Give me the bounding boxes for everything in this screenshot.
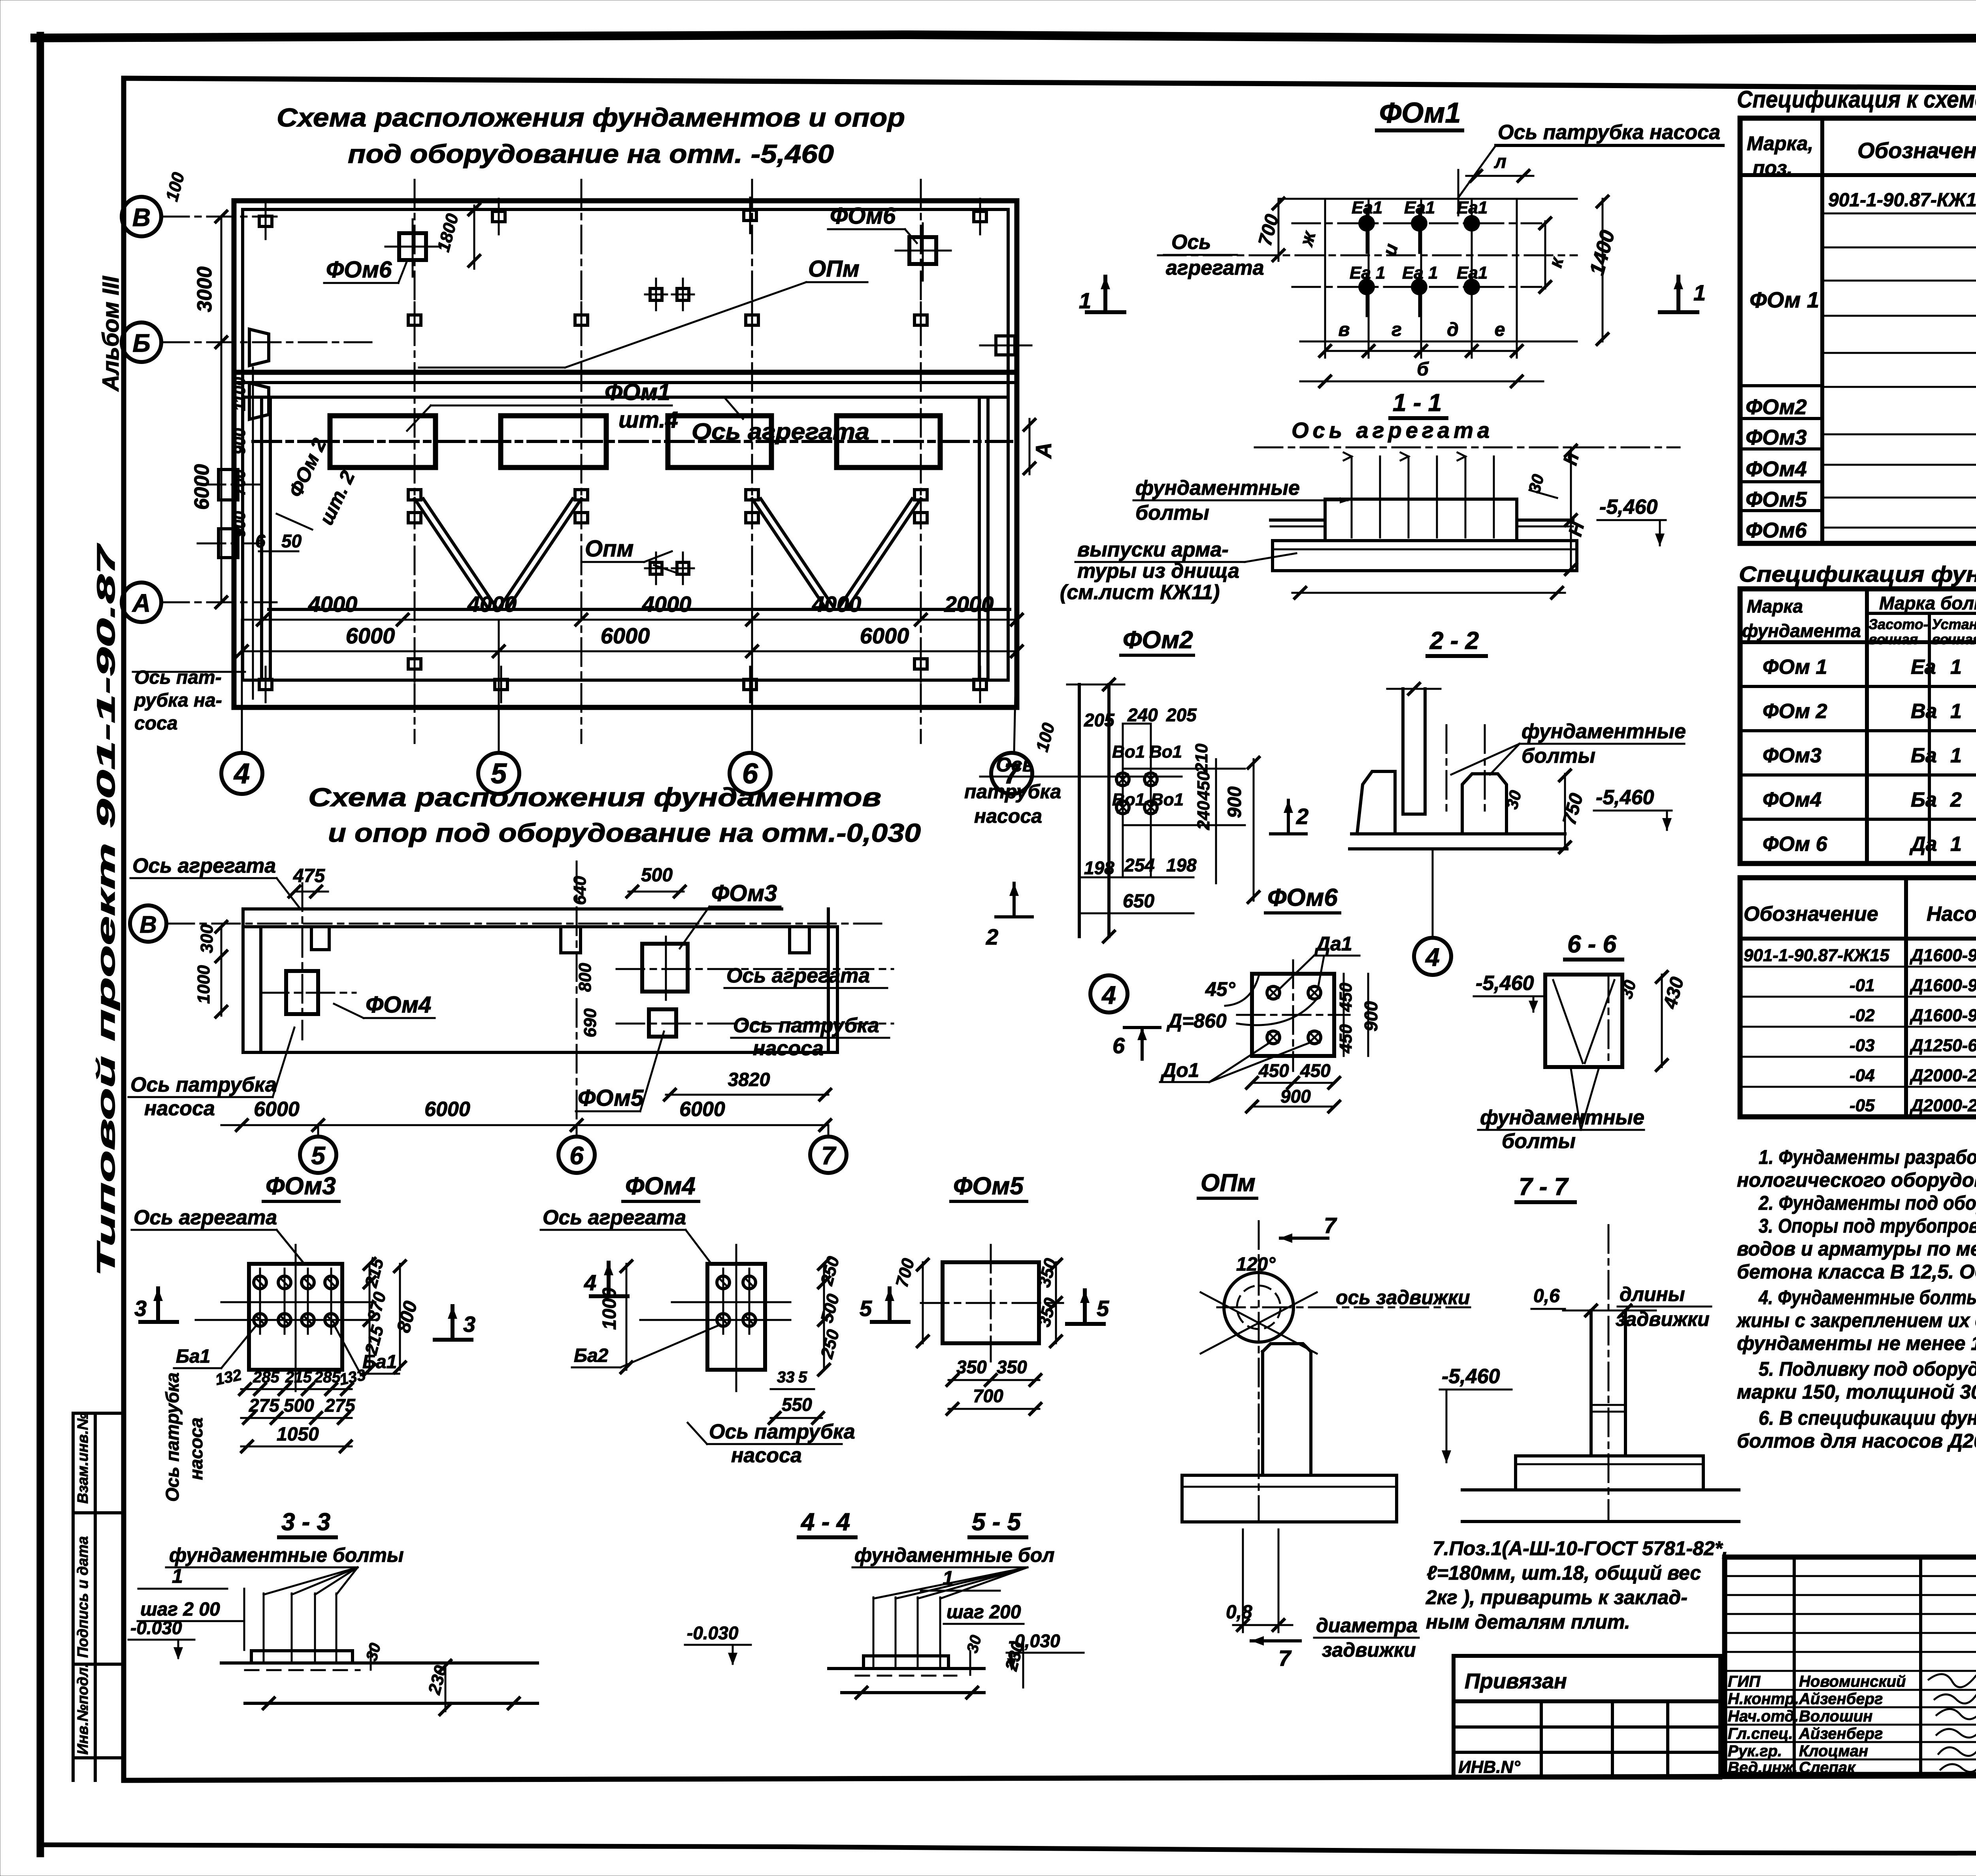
- svg-text:Опм: Опм: [585, 536, 634, 562]
- svg-text:120°: 120°: [1236, 1254, 1276, 1275]
- svg-text:5: 5: [311, 1141, 326, 1170]
- svg-text:Вед.инж.: Вед.инж.: [1728, 1759, 1798, 1776]
- svg-text:5: 5: [491, 758, 507, 790]
- svg-text:-5,460: -5,460: [1476, 972, 1534, 995]
- svg-text:ℓ=180мм, шт.18, общий вес: ℓ=180мм, шт.18, общий вес: [1427, 1562, 1701, 1584]
- svg-text:Обозначение: Обозначение: [1857, 138, 1976, 163]
- svg-text:500: 500: [641, 865, 673, 886]
- svg-text:насоса: насоса: [731, 1444, 802, 1467]
- svg-text:Слепак: Слепак: [1799, 1759, 1856, 1776]
- svg-text:шаг 200: шаг 200: [947, 1602, 1021, 1623]
- svg-text:-04: -04: [1850, 1066, 1875, 1085]
- svg-text:370: 370: [364, 1290, 390, 1323]
- svg-text:1: 1: [1693, 280, 1706, 305]
- svg-text:Ось агрегата: Ось агрегата: [1292, 418, 1493, 443]
- svg-text:4000: 4000: [642, 592, 692, 617]
- svg-text:Д1600-90: Д1600-90: [1909, 946, 1976, 965]
- svg-text:1: 1: [1079, 288, 1091, 313]
- svg-text:ФОм 1: ФОм 1: [1750, 287, 1819, 312]
- svg-text:б: б: [1417, 359, 1429, 380]
- svg-text:2 - 2: 2 - 2: [1429, 627, 1479, 654]
- svg-text:А: А: [1031, 443, 1056, 459]
- svg-text:450: 450: [1194, 771, 1213, 801]
- svg-text:Взам.инв.№: Взам.инв.№: [75, 1413, 91, 1504]
- svg-text:450: 450: [1336, 1024, 1356, 1054]
- svg-text:Еа 1: Еа 1: [1402, 263, 1438, 283]
- svg-text:Д=860: Д=860: [1166, 1010, 1227, 1032]
- svg-text:насоса: насоса: [974, 805, 1042, 827]
- svg-text:шт. 2: шт. 2: [315, 467, 359, 528]
- svg-text:Засото-: Засото-: [1869, 616, 1928, 632]
- svg-text:Н.контр.: Н.контр.: [1728, 1690, 1799, 1708]
- svg-text:задвижки: задвижки: [1616, 1308, 1710, 1330]
- svg-text:До1: До1: [1160, 1059, 1199, 1081]
- svg-text:6000: 6000: [601, 623, 650, 648]
- svg-text:Альбом III: Альбом III: [98, 275, 124, 392]
- svg-text:7: 7: [1278, 1646, 1292, 1670]
- svg-text:901-1-90.87-КЖ15: 901-1-90.87-КЖ15: [1744, 946, 1889, 965]
- svg-text:болты: болты: [1135, 502, 1209, 524]
- svg-text:Ось патрубка насоса: Ось патрубка насоса: [1498, 121, 1720, 144]
- svg-text:4: 4: [584, 1270, 596, 1295]
- svg-text:450: 450: [1258, 1060, 1289, 1081]
- svg-text:ФОм4: ФОм4: [366, 992, 431, 1018]
- svg-text:6: 6: [569, 1141, 584, 1170]
- svg-text:л: л: [1494, 151, 1507, 172]
- svg-text:500: 500: [284, 1395, 314, 1416]
- svg-text:1: 1: [943, 1567, 954, 1589]
- svg-text:1800: 1800: [434, 211, 462, 254]
- svg-text:350: 350: [956, 1357, 987, 1377]
- svg-text:750: 750: [1559, 791, 1587, 827]
- svg-text:Еа1: Еа1: [1404, 198, 1435, 217]
- svg-text:6: 6: [255, 531, 266, 551]
- svg-text:240: 240: [1127, 705, 1158, 725]
- svg-text:-03: -03: [1850, 1036, 1875, 1055]
- svg-text:30: 30: [363, 1641, 384, 1663]
- svg-text:45°: 45°: [1205, 978, 1236, 1000]
- svg-text:Ось: Ось: [996, 754, 1034, 776]
- svg-text:агрегата: агрегата: [1166, 256, 1264, 279]
- svg-text:5. Подливку под оборудование в: 5. Подливку под оборудование выполнить ц…: [1759, 1358, 1976, 1380]
- svg-text:ФОм4: ФОм4: [625, 1173, 696, 1200]
- svg-text:430: 430: [1659, 975, 1688, 1011]
- svg-text:насоса: насоса: [186, 1418, 206, 1480]
- svg-text:6000: 6000: [860, 623, 909, 648]
- svg-text:Марка,: Марка,: [1747, 132, 1813, 155]
- svg-text:Ось агрегата: Ось агрегата: [726, 964, 870, 987]
- svg-text:Айзенберг: Айзенберг: [1799, 1690, 1883, 1708]
- svg-text:марки 150, толщиной 30 мм.: марки 150, толщиной 30 мм.: [1737, 1381, 1976, 1403]
- svg-text:205: 205: [1084, 710, 1115, 730]
- svg-text:1050: 1050: [277, 1424, 319, 1445]
- svg-text:насоса: насоса: [144, 1097, 215, 1120]
- svg-text:4000: 4000: [467, 592, 517, 617]
- svg-text:Привязан: Привязан: [1465, 1669, 1567, 1693]
- svg-text:и: и: [1379, 241, 1402, 258]
- svg-text:-05: -05: [1850, 1096, 1875, 1115]
- svg-text:Клоцман: Клоцман: [1799, 1742, 1868, 1760]
- svg-text:1100: 1100: [231, 377, 249, 411]
- svg-text:450: 450: [1336, 982, 1356, 1012]
- svg-text:3: 3: [134, 1296, 147, 1321]
- svg-text:900: 900: [1224, 786, 1245, 818]
- svg-text:ФОм3: ФОм3: [1746, 426, 1807, 449]
- svg-text:6: 6: [742, 758, 758, 790]
- svg-text:6000: 6000: [346, 623, 395, 648]
- svg-text:4000: 4000: [812, 592, 862, 617]
- svg-text:ФОм2: ФОм2: [1123, 626, 1193, 654]
- svg-text:6000: 6000: [254, 1098, 300, 1121]
- svg-text:болтов для насосов Д2000-21 и: болтов для насосов Д2000-21 и Д 2000-21Б…: [1737, 1430, 1976, 1452]
- svg-text:Гл.спец.: Гл.спец.: [1728, 1725, 1793, 1742]
- svg-text:Ось пат-: Ось пат-: [134, 667, 222, 688]
- svg-text:-01: -01: [1850, 976, 1875, 995]
- svg-text:50: 50: [281, 531, 302, 551]
- svg-text:500: 500: [817, 1292, 843, 1325]
- svg-text:Ба1: Ба1: [362, 1352, 397, 1373]
- svg-text:900: 900: [1280, 1086, 1311, 1107]
- svg-text:700: 700: [892, 1256, 918, 1289]
- svg-text:205: 205: [1166, 705, 1197, 725]
- svg-text:(см.лист КЖ11): (см.лист КЖ11): [1060, 581, 1220, 604]
- svg-text:ФОм4: ФОм4: [1746, 457, 1807, 481]
- svg-text:Ось агрегата: Ось агрегата: [134, 1206, 277, 1229]
- svg-text:ФОм6: ФОм6: [830, 203, 896, 229]
- svg-text:ИНВ.N°: ИНВ.N°: [1458, 1757, 1520, 1777]
- svg-text:475: 475: [293, 865, 325, 886]
- svg-text:4: 4: [1101, 981, 1116, 1009]
- svg-text:6000: 6000: [190, 464, 213, 510]
- svg-text:Марка: Марка: [1747, 596, 1803, 617]
- svg-text:-0.030: -0.030: [130, 1618, 182, 1638]
- svg-text:350: 350: [997, 1357, 1027, 1377]
- svg-text:ОПм: ОПм: [1201, 1169, 1256, 1197]
- svg-text:Ось патрубка: Ось патрубка: [709, 1420, 855, 1443]
- svg-text:болты: болты: [1522, 745, 1595, 767]
- svg-text:Насос: Насос: [1927, 903, 1976, 926]
- svg-text:ФОм5: ФОм5: [578, 1085, 644, 1111]
- svg-text:1: 1: [1950, 700, 1962, 723]
- svg-text:7: 7: [1324, 1213, 1337, 1238]
- svg-text:2: 2: [1296, 804, 1309, 829]
- svg-text:ФОм6: ФОм6: [326, 257, 392, 283]
- svg-text:Еа1: Еа1: [1457, 198, 1488, 217]
- svg-text:640: 640: [570, 876, 590, 905]
- svg-text:700: 700: [231, 469, 249, 496]
- svg-text:3 - 3: 3 - 3: [281, 1508, 330, 1536]
- svg-text:900: 900: [231, 511, 249, 537]
- svg-text:Схема расположения фундаментов: Схема расположения фундаментов: [308, 782, 881, 812]
- svg-text:100: 100: [162, 170, 188, 203]
- svg-text:длины: длины: [1620, 1283, 1685, 1305]
- svg-text:4. Фундаментные болты установи: 4. Фундаментные болты установить в готов…: [1758, 1286, 1976, 1308]
- svg-text:7: 7: [821, 1141, 837, 1170]
- svg-text:3. Опоры под трубопроводную ар: 3. Опоры под трубопроводную арматуру(ОПм…: [1759, 1215, 1976, 1237]
- svg-text:Д1250-65Б: Д1250-65Б: [1909, 1036, 1976, 1055]
- svg-text:Еа1: Еа1: [1352, 198, 1382, 217]
- svg-text:Д1600-90б: Д1600-90б: [1909, 1006, 1976, 1025]
- svg-text:4: 4: [1425, 943, 1440, 971]
- svg-text:700: 700: [973, 1386, 1003, 1406]
- svg-text:4000: 4000: [308, 592, 358, 617]
- svg-text:ФОм6: ФОм6: [1746, 518, 1807, 542]
- svg-text:В: В: [140, 911, 156, 938]
- svg-text:Ба: Ба: [1911, 788, 1937, 811]
- svg-text:Д2000-21Б: Д2000-21Б: [1909, 1096, 1976, 1115]
- svg-text:1000: 1000: [194, 965, 213, 1004]
- svg-text:650: 650: [1123, 891, 1154, 912]
- svg-text:Спецификация к схеме расположе: Спецификация к схеме расположения фундам…: [1737, 86, 1976, 113]
- svg-text:Нач.отд.: Нач.отд.: [1728, 1708, 1799, 1725]
- svg-text:ось задвижки: ось задвижки: [1336, 1286, 1470, 1308]
- svg-text:е: е: [1495, 319, 1505, 340]
- svg-text:33: 33: [777, 1369, 795, 1386]
- svg-text:4 - 4: 4 - 4: [800, 1508, 850, 1536]
- svg-text:Подпись и дата: Подпись и дата: [75, 1536, 91, 1658]
- svg-text:Ось: Ось: [1171, 231, 1211, 254]
- svg-text:ФОм2: ФОм2: [1746, 395, 1807, 419]
- svg-text:насоса: насоса: [753, 1037, 824, 1060]
- svg-text:А: А: [132, 589, 151, 617]
- svg-text:Новоминский: Новоминский: [1799, 1673, 1906, 1690]
- svg-text:5: 5: [860, 1296, 872, 1321]
- svg-text:690: 690: [581, 1008, 600, 1037]
- svg-text:5: 5: [1097, 1296, 1109, 1321]
- svg-text:ФОм6: ФОм6: [1267, 884, 1338, 911]
- svg-text:Д1600-90а: Д1600-90а: [1909, 976, 1976, 995]
- svg-text:Рук.гр.: Рук.гр.: [1728, 1742, 1782, 1760]
- svg-text:Ось агрегата: Ось агрегата: [132, 854, 276, 877]
- svg-text:ным деталям плит.: ным деталям плит.: [1426, 1611, 1630, 1633]
- svg-text:нологического оборудования фун: нологического оборудования фундаментными…: [1737, 1169, 1976, 1191]
- svg-text:ФОм1: ФОм1: [1379, 97, 1461, 129]
- svg-text:3820: 3820: [728, 1069, 770, 1090]
- svg-text:Марка болтов: Марка болтов: [1879, 593, 1976, 613]
- svg-text:Во1: Во1: [1112, 742, 1145, 762]
- svg-text:901-1-90.87-КЖ15: 901-1-90.87-КЖ15: [1828, 190, 1976, 211]
- svg-text:230: 230: [424, 1663, 451, 1697]
- svg-text:Еа1: Еа1: [1457, 263, 1488, 283]
- svg-text:ФОм 2: ФОм 2: [1763, 700, 1827, 723]
- svg-text:2000: 2000: [944, 592, 994, 617]
- svg-text:210: 210: [1192, 743, 1211, 773]
- svg-text:1: 1: [172, 1565, 183, 1587]
- svg-text:6000: 6000: [424, 1098, 470, 1121]
- svg-text:ФОм 6: ФОм 6: [1763, 833, 1828, 856]
- svg-text:1. Фундаменты разработаны в со: 1. Фундаменты разработаны в соответствии…: [1759, 1146, 1976, 1168]
- svg-text:д: д: [1447, 319, 1459, 340]
- svg-text:ФОм 1: ФОм 1: [1763, 656, 1827, 679]
- svg-text:800: 800: [393, 1299, 421, 1335]
- svg-text:ФОм5: ФОм5: [1746, 488, 1807, 511]
- svg-text:рубка на-: рубка на-: [134, 690, 222, 711]
- svg-text:фундаментные болты: фундаментные болты: [169, 1544, 404, 1566]
- svg-text:Во1: Во1: [1149, 742, 1182, 762]
- svg-text:шт.4: шт.4: [618, 407, 678, 433]
- svg-text:ФОм4: ФОм4: [1763, 788, 1821, 811]
- svg-text:550: 550: [782, 1394, 812, 1415]
- svg-text:4: 4: [233, 758, 250, 790]
- svg-text:900: 900: [231, 428, 249, 454]
- svg-text:к: к: [1545, 254, 1568, 270]
- svg-text:6000: 6000: [679, 1098, 725, 1121]
- svg-text:болты: болты: [1502, 1130, 1576, 1153]
- svg-text:ФОм3: ФОм3: [1763, 744, 1821, 767]
- svg-text:диаметра: диаметра: [1316, 1614, 1418, 1637]
- svg-text:2. Фундаменты под оборудование: 2. Фундаменты под оборудование выполнить…: [1758, 1192, 1976, 1214]
- svg-text:30: 30: [963, 1633, 985, 1655]
- svg-text:вочная: вочная: [1869, 631, 1918, 647]
- svg-text:Ба2: Ба2: [574, 1345, 609, 1366]
- svg-text:Типовой проект 901-1-90.87: Типовой проект 901-1-90.87: [92, 543, 120, 1276]
- svg-text:6. В спецификации фундаментных: 6. В спецификации фундаментных болтов в …: [1759, 1407, 1976, 1429]
- svg-text:Еа 1: Еа 1: [1350, 263, 1386, 283]
- svg-text:фундаментные: фундаментные: [1135, 477, 1300, 500]
- svg-text:132: 132: [214, 1366, 243, 1389]
- svg-text:Схема расположения фундаментов: Схема расположения фундаментов и опор: [277, 103, 905, 132]
- svg-text:5 - 5: 5 - 5: [972, 1508, 1022, 1536]
- svg-text:Ось агрегата: Ось агрегата: [543, 1206, 686, 1229]
- svg-text:ФОм3: ФОм3: [266, 1173, 336, 1200]
- svg-text:г: г: [1391, 319, 1402, 340]
- svg-text:ФОм 2: ФОм 2: [284, 435, 330, 500]
- svg-text:7.Поз.1(А-Ш-10-ГОСТ 5781-82*,: 7.Поз.1(А-Ш-10-ГОСТ 5781-82*,: [1433, 1537, 1728, 1559]
- svg-text:Да: Да: [1909, 833, 1937, 856]
- svg-text:В: В: [132, 203, 151, 232]
- svg-text:ФОм5: ФОм5: [953, 1173, 1024, 1200]
- svg-text:1: 1: [1950, 744, 1962, 767]
- svg-text:Обозначение: Обозначение: [1744, 903, 1878, 926]
- svg-text:и опор под оборудование на отм: и опор под оборудование на отм.-0,030: [328, 818, 921, 847]
- svg-text:Д2000-21: Д2000-21: [1909, 1066, 1976, 1085]
- svg-text:30: 30: [1617, 978, 1639, 1001]
- svg-text:1: 1: [1950, 656, 1962, 679]
- svg-text:Ось агрегата: Ось агрегата: [692, 419, 869, 445]
- svg-text:-5,460: -5,460: [1442, 1365, 1500, 1388]
- svg-text:Ва: Ва: [1911, 700, 1937, 723]
- svg-text:2: 2: [986, 924, 998, 949]
- svg-text:Ось патрубка: Ось патрубка: [130, 1073, 277, 1096]
- svg-text:Б: Б: [132, 329, 150, 357]
- svg-text:Ось патрубка: Ось патрубка: [733, 1014, 879, 1037]
- svg-text:3: 3: [463, 1312, 475, 1337]
- svg-text:-0.030: -0.030: [687, 1623, 739, 1643]
- svg-text:Ба1: Ба1: [176, 1346, 210, 1367]
- svg-text:вочная: вочная: [1932, 631, 1976, 647]
- svg-text:фундаментные бол: фундаментные бол: [854, 1544, 1054, 1566]
- svg-text:ФОм3: ФОм3: [711, 880, 777, 906]
- svg-text:жины с закреплением их с помощ: жины с закреплением их с помощью эпоксид…: [1736, 1309, 1976, 1331]
- svg-text:Ба: Ба: [1911, 744, 1937, 767]
- svg-text:2: 2: [1950, 788, 1962, 811]
- svg-text:водов и арматуры по месту с ра: водов и арматуры по месту с размерами ук…: [1737, 1238, 1976, 1260]
- svg-text:ОПм: ОПм: [808, 256, 860, 282]
- svg-text:Волошин: Волошин: [1799, 1708, 1872, 1725]
- svg-text:7 - 7: 7 - 7: [1519, 1173, 1569, 1201]
- svg-text:198: 198: [1084, 858, 1114, 878]
- svg-text:1000: 1000: [599, 1288, 620, 1330]
- svg-text:254: 254: [1124, 855, 1155, 875]
- svg-text:Айзенберг: Айзенберг: [1799, 1725, 1883, 1742]
- svg-text:-02: -02: [1850, 1006, 1875, 1025]
- svg-text:0,6: 0,6: [1533, 1286, 1560, 1307]
- svg-text:1 - 1: 1 - 1: [1393, 389, 1442, 417]
- svg-text:поз.: поз.: [1753, 157, 1793, 179]
- svg-text:фундаментные: фундаментные: [1522, 720, 1686, 743]
- svg-text:250: 250: [817, 1327, 843, 1361]
- svg-text:Инв.№подл.: Инв.№подл.: [75, 1663, 91, 1755]
- svg-text:ФОм1: ФОм1: [605, 379, 670, 405]
- svg-text:800: 800: [575, 963, 595, 992]
- svg-text:фундаменты не менее 10 диаметр: фундаменты не менее 10 диаметров болта.: [1737, 1332, 1976, 1354]
- svg-text:Спецификация фундаментных болт: Спецификация фундаментных болтов на один…: [1739, 562, 1976, 586]
- svg-text:Ось патрубка: Ось патрубка: [162, 1373, 183, 1502]
- svg-text:6 - 6: 6 - 6: [1567, 931, 1617, 958]
- svg-text:-0,030: -0,030: [1009, 1631, 1060, 1651]
- svg-text:соса: соса: [134, 713, 177, 734]
- svg-text:5: 5: [798, 1369, 807, 1386]
- svg-text:198: 198: [1166, 855, 1197, 875]
- svg-text:6: 6: [1112, 1033, 1125, 1058]
- svg-text:100: 100: [1032, 720, 1058, 754]
- svg-text:300: 300: [197, 924, 217, 953]
- svg-text:патрубка: патрубка: [964, 781, 1061, 803]
- svg-text:1: 1: [1950, 833, 1962, 856]
- svg-text:ГИП: ГИП: [1728, 1673, 1761, 1690]
- svg-text:2кг ), приварить к заклад-: 2кг ), приварить к заклад-: [1425, 1586, 1688, 1608]
- svg-text:240: 240: [1194, 801, 1213, 830]
- svg-text:3000: 3000: [193, 266, 216, 312]
- svg-text:шаг 2 00: шаг 2 00: [140, 1599, 220, 1620]
- svg-text:фундаментные: фундаментные: [1480, 1106, 1644, 1129]
- svg-text:900: 900: [1361, 1001, 1381, 1031]
- svg-text:выпуски арма-: выпуски арма-: [1077, 538, 1229, 561]
- svg-text:задвижки: задвижки: [1322, 1639, 1416, 1661]
- svg-text:Еа: Еа: [1911, 656, 1936, 679]
- svg-text:Да1: Да1: [1314, 933, 1352, 955]
- svg-text:туры из днища: туры из днища: [1077, 560, 1239, 583]
- svg-text:бетона класса В 12,5. Объём бе: бетона класса В 12,5. Объём бетона ~1,0 …: [1737, 1261, 1976, 1283]
- svg-text:в: в: [1339, 319, 1350, 340]
- svg-text:-5,460: -5,460: [1596, 786, 1654, 809]
- svg-text:фундамента: фундамента: [1742, 620, 1861, 641]
- svg-text:450: 450: [1300, 1060, 1331, 1081]
- svg-text:ж: ж: [1296, 228, 1320, 249]
- svg-text:Устано-: Устано-: [1932, 616, 1976, 632]
- svg-text:под оборудование на отм. -5,46: под оборудование на отм. -5,460: [348, 139, 834, 168]
- svg-text:-5,460: -5,460: [1599, 496, 1658, 518]
